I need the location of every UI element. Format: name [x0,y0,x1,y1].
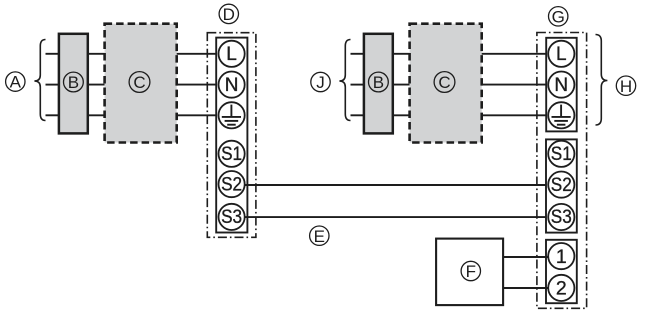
label E [310,226,329,246]
brace for A [34,40,45,121]
terminal 2 [548,275,574,301]
terminal S1 (right) [548,141,574,167]
wire [177,53,219,55]
terminal S1 (left) [219,141,245,167]
wire [482,53,549,55]
wire [351,84,366,86]
terminal strip G signal (S1,S2,S3) [546,139,577,232]
wire [46,53,61,55]
brace for H [596,35,608,126]
wire F to terminal 1 [503,256,548,258]
terminal N (right) [548,72,574,98]
wire S3 to S3 [245,216,548,218]
terminal S2 (left) [219,171,245,197]
svg-text:E: E [314,227,325,246]
wire [88,84,105,86]
svg-text:C: C [438,73,450,92]
wire [393,53,410,55]
svg-text:S3: S3 [551,207,572,228]
wire [88,114,105,116]
svg-text:F: F [466,262,476,281]
block C (right) [410,24,482,143]
wire [351,114,366,116]
svg-text:L: L [556,44,567,65]
component F [436,239,503,306]
wire [46,114,61,116]
svg-text:J: J [316,73,325,92]
svg-text:S2: S2 [221,174,242,195]
terminal L (right) [548,41,574,67]
wire [46,84,61,86]
wire [482,84,549,86]
wire [393,84,410,86]
terminal strip G aux (1,2) [546,240,577,303]
svg-text:S1: S1 [551,144,572,165]
label A [6,72,25,92]
svg-text:A: A [10,73,22,92]
terminal block G outline (dash-dot) [537,33,587,309]
label G [549,7,568,27]
terminal L (left) [219,41,245,67]
wire [88,53,105,55]
svg-text:N: N [225,75,239,96]
block C (left) [105,24,177,143]
svg-text:S1: S1 [221,144,242,165]
svg-text:N: N [554,75,568,96]
svg-text:G: G [552,7,565,26]
svg-text:B: B [68,73,79,92]
svg-text:D: D [223,5,235,24]
wire [177,114,219,116]
svg-text:S3: S3 [221,207,242,228]
svg-text:S2: S2 [551,175,572,196]
label D [219,4,238,24]
svg-text:1: 1 [556,246,567,268]
svg-text:2: 2 [556,278,567,300]
svg-text:B: B [373,73,384,92]
wire [393,114,410,116]
wire [351,53,366,55]
svg-text:C: C [133,73,145,92]
svg-text:H: H [620,77,632,96]
wire [482,114,549,116]
wire S2 to S2 [245,184,548,186]
brace for J [339,40,350,121]
terminal strip G power (L,N,earth) [546,38,577,132]
svg-text:L: L [226,44,237,65]
ground terminal (right) [548,102,574,128]
label H [616,76,635,96]
ground terminal (left) [219,102,245,128]
terminal N (left) [219,72,245,98]
terminal block D outline (dash-dot) [207,33,256,238]
block B (left) [59,34,88,134]
terminal S3 (right) [548,204,574,230]
terminal 1 [548,243,574,269]
terminal S2 (right) [548,172,574,198]
label J [311,72,330,92]
terminal S3 (left) [219,204,245,230]
block B (right) [364,34,393,134]
wire F to terminal 2 [503,287,548,289]
terminal strip D [216,38,247,233]
wire [177,84,219,86]
